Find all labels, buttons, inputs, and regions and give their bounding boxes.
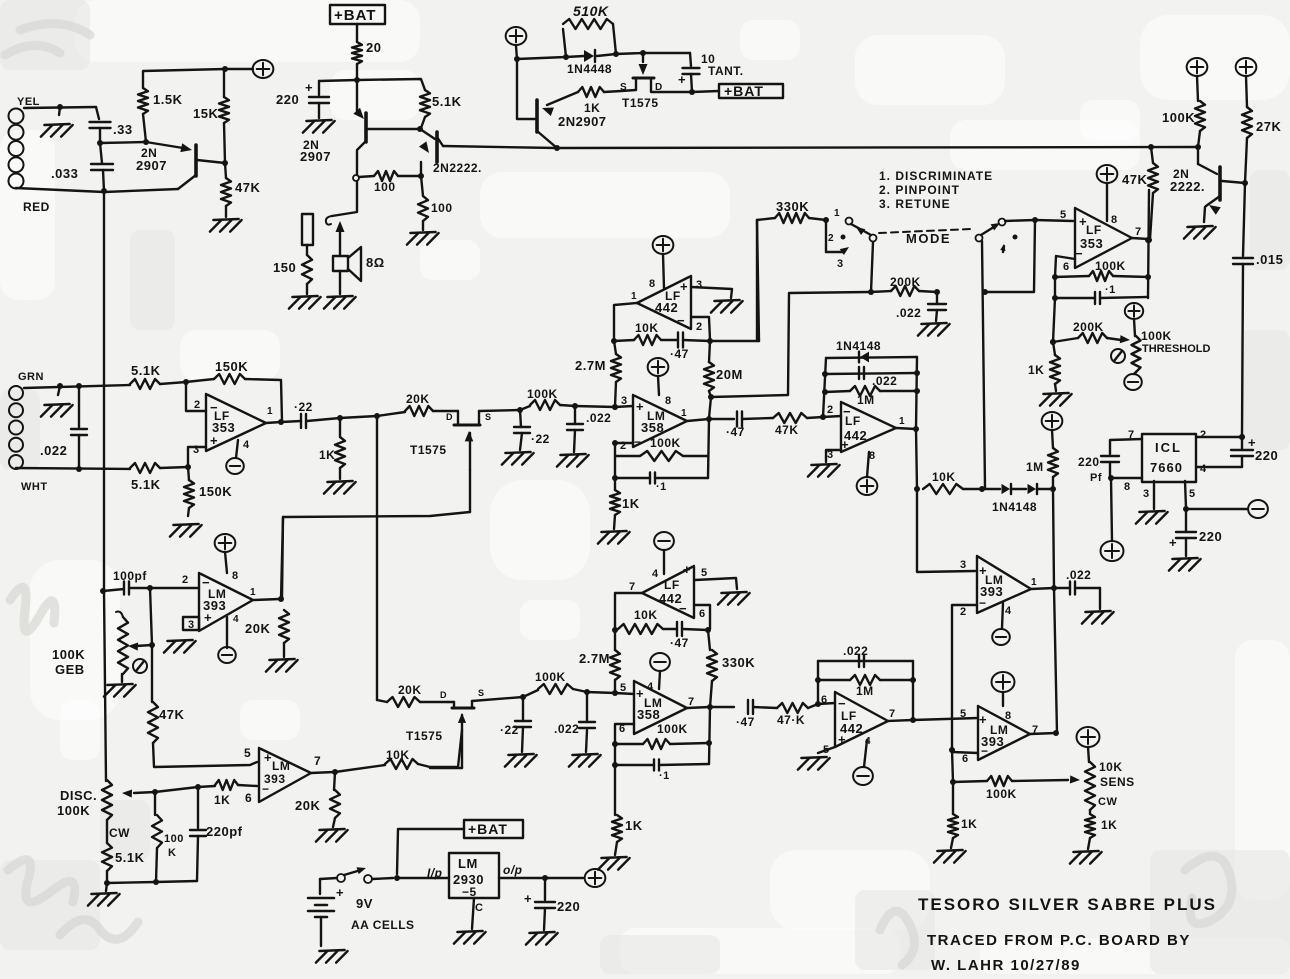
svg-text:S: S	[485, 412, 492, 422]
svg-text:8: 8	[1005, 710, 1012, 722]
svg-text:+: +	[264, 750, 272, 765]
svg-text:20M: 20M	[716, 367, 743, 382]
svg-text:150K: 150K	[215, 359, 248, 374]
svg-text:K: K	[168, 847, 176, 859]
svg-text:220: 220	[1078, 455, 1100, 469]
svg-text:8: 8	[649, 278, 656, 290]
svg-text:100: 100	[164, 833, 184, 845]
svg-text:1: 1	[267, 406, 273, 417]
svg-text:·1: ·1	[1105, 284, 1116, 296]
svg-text:1M: 1M	[856, 684, 874, 698]
svg-text:RED: RED	[23, 200, 50, 214]
svg-text:.022: .022	[843, 644, 868, 658]
svg-text:2: 2	[696, 321, 703, 333]
svg-text:6: 6	[821, 694, 828, 706]
svg-text:2: 2	[827, 404, 834, 416]
svg-text:100K: 100K	[527, 387, 558, 401]
svg-text:5.1K: 5.1K	[131, 363, 161, 378]
svg-text:9V: 9V	[356, 896, 373, 911]
svg-text:2: 2	[194, 399, 201, 411]
svg-text:.015: .015	[1256, 252, 1283, 267]
svg-text:510K: 510K	[573, 3, 609, 19]
svg-text:20K: 20K	[398, 683, 422, 697]
svg-text:·22: ·22	[294, 400, 313, 414]
svg-text:3: 3	[188, 619, 195, 631]
svg-text:10K: 10K	[386, 748, 410, 762]
svg-text:+BAT: +BAT	[468, 821, 508, 837]
svg-text:4: 4	[233, 614, 239, 625]
svg-text:GEB: GEB	[55, 662, 85, 677]
svg-text:442: 442	[655, 300, 678, 315]
svg-text:+: +	[204, 610, 212, 625]
svg-text:·47: ·47	[736, 715, 755, 729]
svg-text:100K: 100K	[986, 787, 1017, 801]
svg-text:5.1K: 5.1K	[432, 94, 462, 109]
svg-text:·47: ·47	[670, 347, 689, 361]
svg-text:−5: −5	[462, 885, 477, 899]
svg-text:+: +	[680, 279, 688, 294]
svg-text:LM: LM	[458, 856, 478, 871]
svg-text:20K: 20K	[245, 621, 270, 636]
svg-text:2N2222.: 2N2222.	[433, 161, 482, 175]
svg-text:6: 6	[699, 608, 706, 620]
svg-text:5: 5	[244, 746, 251, 760]
svg-text:100K: 100K	[1095, 259, 1126, 273]
svg-text:5: 5	[960, 708, 967, 720]
svg-text:+BAT: +BAT	[724, 83, 764, 99]
svg-text:D: D	[655, 82, 663, 93]
svg-text:200K: 200K	[1073, 320, 1104, 334]
svg-text:+: +	[678, 72, 686, 87]
svg-text:20: 20	[366, 40, 381, 55]
svg-text:1.5K: 1.5K	[153, 92, 183, 107]
svg-text:.022: .022	[586, 411, 611, 425]
svg-text:+: +	[336, 885, 344, 900]
svg-text:Pf: Pf	[1090, 472, 1102, 484]
svg-text:−: −	[981, 744, 989, 758]
svg-text:47K: 47K	[159, 707, 184, 722]
svg-text:+: +	[841, 437, 849, 452]
svg-text:2. PINPOINT: 2. PINPOINT	[879, 183, 960, 197]
svg-text:2: 2	[960, 606, 967, 618]
svg-text:7: 7	[314, 754, 321, 768]
svg-text:−: −	[634, 435, 642, 449]
svg-text:+: +	[636, 399, 644, 414]
svg-text:1K: 1K	[622, 496, 640, 511]
svg-text:4: 4	[1005, 605, 1012, 617]
svg-text:2907: 2907	[300, 149, 331, 164]
svg-text:+: +	[305, 80, 313, 95]
svg-text:2: 2	[182, 574, 189, 586]
svg-text:8Ω: 8Ω	[366, 255, 385, 270]
svg-text:47K: 47K	[235, 180, 260, 195]
svg-text:·47: ·47	[670, 636, 689, 650]
svg-text:100K: 100K	[57, 803, 90, 818]
svg-text:353: 353	[1080, 236, 1103, 251]
svg-text:100K: 100K	[52, 647, 85, 662]
svg-text:+: +	[683, 562, 691, 577]
svg-text:15K: 15K	[193, 106, 218, 121]
svg-text:1K: 1K	[961, 817, 977, 831]
svg-text:·1: ·1	[656, 481, 667, 493]
svg-text:8: 8	[1124, 481, 1131, 493]
svg-text:5.1K: 5.1K	[131, 477, 161, 492]
svg-text:3: 3	[1143, 488, 1150, 500]
svg-text:47·K: 47·K	[777, 713, 805, 727]
svg-text:CW: CW	[1098, 796, 1117, 808]
svg-text:47K: 47K	[1122, 172, 1147, 187]
svg-text:3. RETUNE: 3. RETUNE	[879, 197, 951, 211]
svg-text:8: 8	[665, 395, 672, 407]
svg-text:150K: 150K	[199, 484, 232, 499]
svg-text:−: −	[1075, 246, 1083, 261]
svg-text:1: 1	[1031, 577, 1037, 588]
svg-text:20K: 20K	[406, 392, 430, 406]
svg-text:2: 2	[1200, 429, 1207, 441]
svg-text:1: 1	[681, 408, 687, 419]
svg-text:2: 2	[828, 233, 834, 244]
svg-text:100: 100	[431, 201, 453, 215]
svg-text:7: 7	[1135, 226, 1142, 238]
svg-text:1K: 1K	[584, 101, 600, 115]
svg-text:D: D	[446, 412, 453, 422]
svg-text:4: 4	[1200, 463, 1207, 475]
svg-text:T1575: T1575	[406, 729, 443, 743]
svg-text:+: +	[838, 732, 846, 747]
svg-text:1K: 1K	[1101, 818, 1117, 832]
svg-text:220: 220	[276, 92, 299, 107]
svg-text:100K: 100K	[535, 670, 566, 684]
svg-text:20K: 20K	[295, 798, 320, 813]
svg-text:10K: 10K	[932, 470, 956, 484]
svg-text:5: 5	[701, 567, 708, 579]
svg-text:AA CELLS: AA CELLS	[351, 918, 415, 932]
svg-text:THRESHOLD: THRESHOLD	[1142, 343, 1211, 355]
svg-text:CW: CW	[109, 826, 130, 840]
svg-text:YEL: YEL	[17, 96, 40, 108]
svg-text:LF: LF	[1086, 223, 1102, 237]
svg-text:220: 220	[557, 899, 580, 914]
svg-text:3: 3	[837, 258, 844, 270]
svg-text:358: 358	[641, 420, 664, 435]
svg-text:1: 1	[631, 291, 637, 302]
svg-text:100K: 100K	[650, 436, 681, 450]
svg-text:4: 4	[652, 568, 659, 580]
svg-text:LM: LM	[272, 759, 290, 773]
svg-text:GRN: GRN	[18, 371, 44, 383]
svg-text:1K: 1K	[319, 448, 335, 462]
svg-text:5: 5	[1189, 488, 1196, 500]
svg-text:.022: .022	[1066, 568, 1091, 582]
svg-text:1N4448: 1N4448	[567, 62, 612, 76]
svg-text:SENS: SENS	[1100, 775, 1135, 789]
svg-text:1M: 1M	[857, 393, 875, 407]
svg-text:330K: 330K	[722, 655, 755, 670]
svg-text:3: 3	[696, 279, 703, 291]
svg-text:−: −	[979, 596, 987, 610]
svg-text:220: 220	[1255, 448, 1278, 463]
svg-text:T1575: T1575	[622, 96, 659, 110]
svg-text:+BAT: +BAT	[334, 7, 376, 24]
svg-text:2.7M: 2.7M	[575, 358, 606, 373]
svg-text:100K: 100K	[1162, 110, 1195, 125]
svg-text:·22: ·22	[531, 432, 550, 446]
svg-text:−: −	[677, 313, 685, 328]
svg-text:LF: LF	[664, 578, 680, 592]
svg-text:358: 358	[637, 707, 660, 722]
svg-text:D: D	[440, 690, 447, 700]
svg-text:7: 7	[629, 581, 636, 593]
svg-text:1N4148: 1N4148	[836, 339, 881, 353]
svg-text:220pf: 220pf	[206, 824, 243, 839]
svg-text:6: 6	[1063, 261, 1070, 273]
svg-text:o/p: o/p	[503, 863, 523, 877]
svg-text:LF: LF	[845, 414, 861, 428]
svg-text:1: 1	[899, 416, 905, 427]
svg-text:T1575: T1575	[410, 443, 447, 457]
svg-text:MODE: MODE	[906, 231, 951, 246]
svg-text:1K: 1K	[1028, 363, 1044, 377]
svg-text:DISC.: DISC.	[60, 788, 97, 803]
svg-text:6: 6	[245, 791, 252, 805]
svg-text:TANT.: TANT.	[708, 64, 744, 78]
svg-text:2N2907: 2N2907	[558, 114, 607, 129]
svg-text:7: 7	[688, 696, 695, 708]
svg-text:100pf: 100pf	[113, 569, 147, 583]
svg-text:+: +	[1169, 535, 1177, 550]
svg-text:1: 1	[834, 208, 840, 219]
svg-text:8: 8	[1111, 214, 1118, 226]
svg-text:47K: 47K	[775, 423, 799, 437]
svg-text:220: 220	[1199, 529, 1222, 544]
svg-text:5: 5	[1060, 209, 1067, 221]
svg-text:W. LAHR 10/27/89: W. LAHR 10/27/89	[931, 957, 1081, 974]
svg-text:330K: 330K	[776, 199, 809, 214]
svg-text:TESORO SILVER SABRE PLUS: TESORO SILVER SABRE PLUS	[918, 895, 1217, 914]
svg-text:.022: .022	[40, 443, 67, 458]
svg-text:+: +	[979, 712, 987, 727]
svg-text:100: 100	[374, 180, 396, 194]
svg-text:10K: 10K	[635, 321, 659, 335]
svg-text:·22: ·22	[500, 723, 519, 737]
svg-text:.33: .33	[113, 122, 133, 137]
svg-text:+: +	[524, 891, 532, 906]
svg-text:+: +	[210, 433, 218, 448]
svg-text:27K: 27K	[1256, 119, 1281, 134]
svg-text:TRACED FROM P.C. BOARD BY: TRACED FROM P.C. BOARD BY	[927, 932, 1191, 949]
svg-text:1M: 1M	[1026, 460, 1044, 474]
svg-text:.033: .033	[51, 166, 78, 181]
svg-text:·47: ·47	[726, 425, 745, 439]
svg-text:4: 4	[243, 439, 250, 451]
svg-text:200K: 200K	[890, 275, 921, 289]
svg-text:1: 1	[250, 587, 256, 598]
svg-text:100K: 100K	[1141, 329, 1172, 343]
svg-text:4: 4	[647, 681, 654, 693]
svg-text:WHT: WHT	[21, 481, 48, 493]
svg-text:3: 3	[960, 559, 967, 571]
svg-text:5.1K: 5.1K	[115, 850, 145, 865]
svg-text:150: 150	[273, 260, 296, 275]
svg-text:1K: 1K	[625, 818, 643, 833]
svg-text:1K: 1K	[214, 793, 230, 807]
svg-text:·1: ·1	[659, 770, 670, 782]
svg-text:−: −	[679, 601, 687, 616]
svg-text:100K: 100K	[657, 722, 688, 736]
svg-text:10K: 10K	[634, 608, 658, 622]
svg-text:1N4148: 1N4148	[992, 500, 1037, 514]
svg-text:−: −	[262, 782, 270, 796]
svg-text:.022: .022	[554, 722, 579, 736]
svg-text:6: 6	[962, 753, 969, 765]
svg-text:2222.: 2222.	[1170, 179, 1205, 194]
svg-text:10K: 10K	[1099, 760, 1123, 774]
svg-text:2.7M: 2.7M	[579, 651, 610, 666]
svg-text:7660: 7660	[1150, 460, 1183, 475]
svg-text:C: C	[475, 902, 483, 914]
svg-text:I/p: I/p	[427, 866, 443, 880]
svg-text:.022: .022	[896, 306, 921, 320]
svg-text:7: 7	[889, 708, 896, 720]
svg-text:S: S	[478, 688, 485, 698]
svg-text:+: +	[636, 686, 644, 701]
svg-text:8: 8	[232, 570, 239, 582]
svg-text:ICL: ICL	[1155, 440, 1182, 455]
svg-text:2907: 2907	[136, 158, 167, 173]
svg-text:1. DISCRIMINATE: 1. DISCRIMINATE	[879, 169, 993, 183]
